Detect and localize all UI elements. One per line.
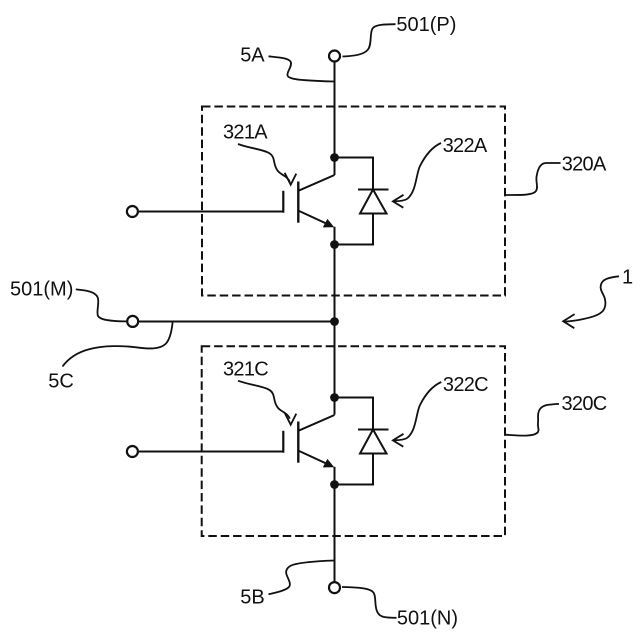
svg-text:1: 1	[622, 267, 633, 289]
svg-text:322A: 322A	[443, 135, 488, 157]
svg-text:320C: 320C	[562, 393, 607, 415]
svg-text:321A: 321A	[223, 122, 268, 144]
svg-text:5A: 5A	[240, 45, 265, 67]
svg-text:320A: 320A	[562, 154, 607, 176]
svg-text:501(N): 501(N)	[397, 607, 458, 629]
svg-text:5B: 5B	[240, 587, 264, 609]
svg-text:5C: 5C	[48, 370, 74, 392]
svg-text:501(P): 501(P)	[396, 14, 456, 36]
svg-text:321C: 321C	[223, 358, 268, 380]
svg-text:322C: 322C	[443, 374, 488, 396]
svg-text:501(M): 501(M)	[10, 279, 73, 301]
